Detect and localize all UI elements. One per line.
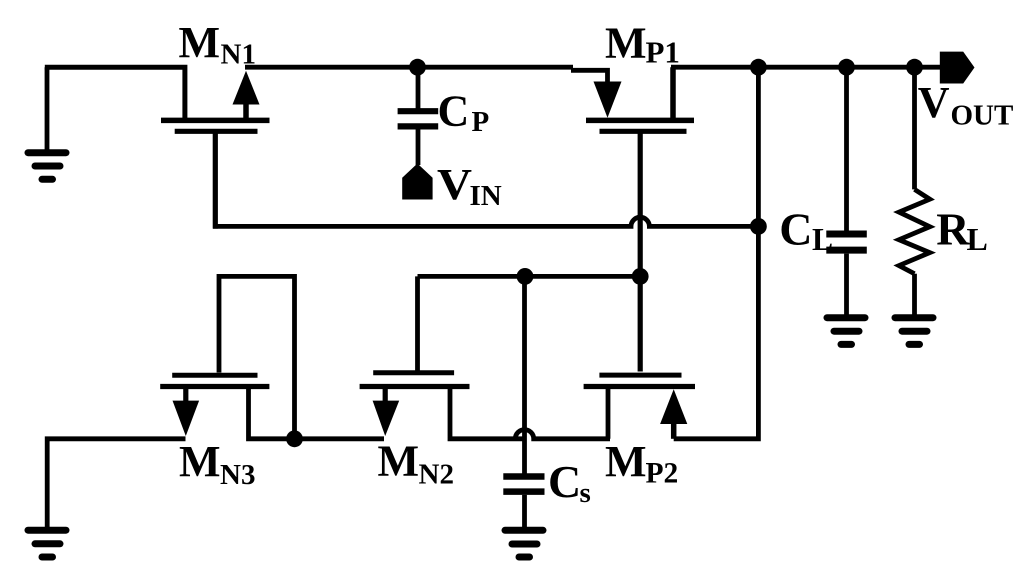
node dot top rail at RL/output xyxy=(906,59,923,76)
label RL xyxy=(936,204,988,258)
wire: top-left rail from ground riser to MN1 gate corner xyxy=(45,67,185,118)
output terminal VOUT xyxy=(940,52,975,84)
wire: top rail MN1 source to MP1 xyxy=(245,65,573,70)
svg-text:OUT: OUT xyxy=(951,99,1014,131)
node dot right column at feedback wire xyxy=(750,218,767,235)
wire: Cs column vertical xyxy=(522,276,527,474)
label MN3 xyxy=(179,437,255,491)
node dot top rail at CL xyxy=(838,59,855,76)
label CP xyxy=(438,86,490,138)
label CL xyxy=(779,204,833,258)
ground (bottom left) xyxy=(28,530,66,557)
wire: rail MN3 dot to MN2 arrow xyxy=(295,436,385,441)
wire: rail from Cs hop to MP2 left lead xyxy=(515,430,610,439)
ground (under CL) xyxy=(827,318,865,345)
svg-text:M: M xyxy=(179,18,221,67)
capacitor CP xyxy=(398,67,439,165)
ground (under Cs) xyxy=(505,530,543,557)
svg-text:M: M xyxy=(605,437,647,486)
svg-text:N2: N2 xyxy=(419,458,454,490)
label MN1 xyxy=(179,18,256,71)
label VOUT xyxy=(918,78,1014,131)
wire: small step segment into MP1 source arrow xyxy=(571,70,608,83)
wire: MN3 diode loop xyxy=(219,276,295,436)
wire: feedback wire MN1 gate to right column, with hop over MP1 gate column xyxy=(213,217,758,226)
capacitor CL xyxy=(826,67,867,315)
ground (under RL) xyxy=(895,318,933,345)
transistor MN1 xyxy=(161,71,270,132)
svg-text:P2: P2 xyxy=(646,457,679,489)
label MN2 xyxy=(378,437,454,491)
svg-text:R: R xyxy=(936,204,970,255)
svg-text:C: C xyxy=(548,456,581,507)
wire: gate bus MN2 to MP1/MP2 gate column xyxy=(418,274,641,279)
ground (top left) xyxy=(28,67,66,179)
svg-text:V: V xyxy=(437,160,472,209)
node dot at MN3 bottom xyxy=(286,430,303,447)
input terminal VIN xyxy=(402,164,432,200)
svg-text:M: M xyxy=(605,18,647,67)
label MP2 xyxy=(605,437,678,489)
node dot on MP1 gate column xyxy=(632,268,649,285)
wire: bottom-left rail to ground xyxy=(47,439,185,527)
wire: MN2 gate loop xyxy=(415,276,420,371)
label Cs xyxy=(548,456,591,509)
svg-text:P1: P1 xyxy=(646,35,680,70)
svg-text:s: s xyxy=(580,477,591,509)
resistor RL xyxy=(899,67,930,315)
wire: MP2 source to right column xyxy=(674,67,759,439)
svg-text:V: V xyxy=(918,78,950,127)
svg-text:L: L xyxy=(812,222,833,257)
wire: MP1 gate lead down to MP2 gate xyxy=(638,134,643,372)
transistor MP1 xyxy=(586,67,694,131)
svg-text:C: C xyxy=(438,86,470,135)
label VIN xyxy=(437,160,502,212)
svg-text:N3: N3 xyxy=(220,459,255,491)
transistor MN2 xyxy=(360,373,525,439)
svg-text:M: M xyxy=(378,437,420,486)
svg-text:IN: IN xyxy=(470,180,502,212)
wire: MN1 gate lead down to feedback wire xyxy=(213,133,218,229)
label MP1 xyxy=(605,18,680,69)
svg-text:P: P xyxy=(472,106,490,138)
transistor MN3 xyxy=(160,375,294,439)
node dot at CP junction xyxy=(409,59,426,76)
svg-text:M: M xyxy=(179,437,221,486)
svg-text:C: C xyxy=(779,204,812,255)
transistor MP2 xyxy=(584,375,695,439)
wire: top rail MP1 drain to output xyxy=(671,65,941,70)
svg-text:L: L xyxy=(967,221,988,257)
capacitor Cs xyxy=(503,477,544,528)
node dot at Cs column xyxy=(517,268,534,285)
node dot top rail at right column xyxy=(750,59,767,76)
